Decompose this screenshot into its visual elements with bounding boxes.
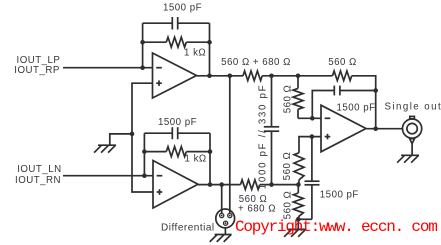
node top rail cap tap	[269, 74, 274, 79]
wire U2 feedback right vertical to output	[209, 133, 211, 184]
resistor 560 top vertical (leads)	[297, 76, 299, 89]
capacitor 1500pF bottom (verticals)	[311, 137, 313, 182]
wire joining 560 bottom and 1500pF bottom to ground	[298, 218, 312, 220]
op-amp U3	[321, 105, 366, 152]
node U1 output/feedback junction	[207, 74, 212, 79]
node common non-inverting ground junction	[130, 132, 135, 137]
resistor 1k U2 feedback (leads)	[144, 151, 166, 153]
capacitor 1000pF//330pF (plates)	[264, 126, 279, 128]
svg-text:Copyright:www. eccn. com: Copyright:www. eccn. com	[235, 218, 437, 236]
node top rail 560 tap	[296, 74, 301, 79]
op-amp U2	[153, 161, 198, 209]
capacitor 1000pF//330pF (verticals)	[271, 76, 273, 127]
capacitor 1500pF U1 feedback (plates)	[171, 17, 173, 30]
capacitor 1500pF U2 feedback (plates)	[171, 127, 173, 139]
node non-inverting line cap tap	[310, 134, 315, 139]
wire U1 non-inverting input down to common ground node	[132, 83, 153, 192]
node U2 input/feedback junction	[142, 173, 147, 178]
capacitor 1500pF bottom (plates)	[305, 180, 320, 182]
connector Single out jack (inner)	[407, 123, 417, 133]
svg-text:Differential: Differential	[161, 223, 215, 234]
connector Differential XLR pin bottom	[224, 221, 228, 225]
svg-text:560 Ω + 680 Ω: 560 Ω + 680 Ω	[221, 57, 291, 68]
node U1 input/feedback junction	[140, 65, 145, 70]
svg-text:1000 pF // 330 pF: 1000 pF // 330 pF	[258, 84, 269, 189]
node bottom rail cap junction	[269, 182, 274, 187]
resistor 560 top vertical (zigzag)	[293, 88, 303, 109]
node inverting line cap tap	[310, 116, 315, 121]
resistor 1k U1 feedback (zigzag)	[166, 37, 186, 47]
connector XLR pin right center dot	[229, 215, 231, 217]
svg-text:1 kΩ: 1 kΩ	[184, 47, 206, 58]
resistor 1k U2 feedback (zigzag)	[166, 147, 186, 157]
wire U1 output top rail	[197, 75, 244, 77]
node bottom ground junction	[296, 217, 301, 222]
svg-text:1500 pF: 1500 pF	[337, 103, 376, 114]
wire bottom rail	[260, 184, 299, 186]
capacitor 1500pF U2 feedback (wires)	[144, 132, 172, 134]
wire top rail to feedback resistor	[262, 75, 332, 77]
node top rail XLR tap	[228, 74, 233, 79]
connector Differential XLR (outer)	[216, 209, 235, 228]
connector Differential XLR pin right	[228, 213, 232, 217]
svg-text:IOUT_RP: IOUT_RP	[14, 65, 60, 76]
wire U2 feedback left vertical	[143, 133, 145, 176]
resistor 560+680 top (zigzag)	[243, 71, 262, 81]
resistor 1k U1 feedback (leads)	[143, 41, 167, 43]
svg-text:1500 pF: 1500 pF	[163, 2, 202, 13]
wire U2 output bottom rail	[198, 184, 241, 186]
ground (earth) at op-amp non-inverting inputs	[98, 144, 116, 146]
svg-text:560 Ω: 560 Ω	[282, 191, 293, 220]
svg-text:1500 pF: 1500 pF	[158, 117, 197, 128]
connector Single out jack (bottom stub)	[410, 139, 415, 144]
svg-text:560 Ω: 560 Ω	[328, 57, 357, 68]
resistor 560+680 bottom (zigzag)	[241, 180, 260, 190]
wire IOUT_LP/RP input to U1 inverting input	[63, 67, 153, 69]
resistor 560 bottom vertical (zigzag)	[293, 193, 303, 217]
wire XLR shell to ground	[224, 228, 226, 235]
node feedback cap right junction	[373, 88, 378, 93]
svg-text:IOUT_LN: IOUT_LN	[17, 164, 61, 175]
svg-text:Single out: Single out	[385, 102, 441, 113]
connector Differential XLR pin left	[220, 213, 224, 217]
wire Single out jack to ground	[411, 144, 413, 156]
resistor 560 middle vertical (zigzag)	[294, 153, 304, 180]
svg-text:560 Ω: 560 Ω	[282, 152, 293, 181]
node U1 feedback resistor left	[140, 40, 145, 45]
svg-text:1500 pF: 1500 pF	[320, 189, 359, 200]
connector Single out jack (top notch)	[410, 116, 415, 119]
wire XLR left pin from bottom rail	[221, 185, 223, 214]
ground (earth) below Single out	[401, 154, 419, 156]
svg-text:IOUT_RN: IOUT_RN	[15, 175, 61, 186]
node U2 output/feedback junction	[208, 182, 213, 187]
svg-text:+ 680 Ω: + 680 Ω	[238, 203, 276, 214]
node bottom rail XLR tap	[219, 182, 224, 187]
wire U3 output to Single out jack	[366, 128, 402, 130]
capacitor 1500pF U3 feedback (plates)	[333, 86, 335, 96]
wire U3 non-inverting input line	[299, 137, 321, 153]
wire U1 feedback left vertical	[142, 23, 144, 67]
capacitor 1500pF U3 feedback (wires)	[312, 91, 334, 119]
wire XLR right pin from top rail	[229, 76, 231, 214]
svg-text:560 Ω: 560 Ω	[282, 85, 293, 114]
op-amp U1	[153, 53, 197, 98]
capacitor 1500pF U1 feedback (wires)	[143, 22, 172, 24]
node bottom rail 560 junction	[296, 182, 301, 187]
ground (earth) below bottom RC	[288, 228, 306, 230]
connector Single out jack (outer)	[403, 119, 422, 138]
resistor 560 feedback top (zigzag)	[333, 71, 352, 81]
wire U3 inverting input line	[298, 117, 321, 119]
connector XLR pin bottom center dot	[225, 222, 227, 224]
node U1 feedback resistor right	[207, 40, 212, 45]
resistor 560 bottom vertical (leads)	[297, 185, 299, 193]
svg-text:1 kΩ: 1 kΩ	[185, 153, 207, 164]
node U2 feedback resistor left	[142, 149, 147, 154]
node U3 output junction	[373, 126, 378, 131]
wire feedback down to U3 output	[352, 76, 376, 129]
connector XLR pin left center dot	[221, 215, 223, 217]
node U2 feedback resistor right	[208, 149, 213, 154]
wire U1 feedback right vertical to output	[209, 23, 211, 76]
ground (earth) below XLR	[215, 234, 232, 236]
wire IOUT_LN/RN input to U2 inverting input	[63, 175, 153, 177]
resistor 560 middle vertical (bottom lead)	[298, 180, 300, 185]
wire ground branch	[110, 134, 132, 145]
